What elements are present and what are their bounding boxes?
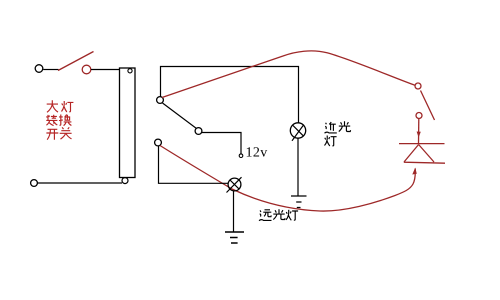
diode / headlamp symbol (red) — [399, 143, 445, 145]
char 近 — [325, 122, 337, 133]
char 关 — [60, 127, 72, 139]
arrowhead on wire — [417, 132, 421, 138]
connector bottom terminal — [122, 178, 128, 184]
bottom wire — [37, 182, 122, 184]
wire from terminal A — [43, 69, 58, 71]
right switch lower terminal (red) — [416, 113, 422, 119]
wire lamp to ground — [233, 191, 235, 232]
wire to battery terminal — [202, 133, 241, 154]
switch S1 blade (red) — [58, 52, 94, 71]
wire from S1 to connector block — [91, 69, 120, 71]
dimmer switch lower terminal — [155, 139, 162, 146]
connector top terminal — [128, 69, 132, 73]
red wire terminal to diode — [418, 119, 420, 144]
char 远 — [259, 210, 272, 221]
char 灯 — [286, 210, 298, 221]
bottom-left terminal — [31, 180, 38, 187]
char 灯 — [325, 136, 337, 147]
dimmer switch common terminal (top) — [157, 97, 164, 104]
connector block (fuse/junction) rectangle — [120, 68, 136, 178]
label 近光灯 — [325, 121, 351, 146]
ground (low-beam) — [291, 196, 307, 208]
high-beam lamp (远光灯) — [228, 178, 241, 191]
label 远光灯 — [259, 209, 298, 220]
battery terminal — [239, 154, 243, 158]
char 光 — [273, 209, 285, 219]
red wire from dimmer common to right switch — [162, 51, 416, 98]
char 灯 — [62, 101, 74, 112]
wire lamp to ground — [297, 138, 299, 195]
top supply wire to low-beam lamp — [161, 67, 299, 123]
right switch blade (red) — [421, 91, 435, 121]
svg-text:12v: 12v — [245, 146, 267, 161]
right changeover switch upper terminal (red) — [415, 83, 421, 89]
char 开 — [46, 129, 58, 139]
ground (high-beam) — [225, 232, 244, 243]
terminal A (headlight switch left terminal) — [35, 65, 43, 73]
low-beam lamp (近光灯) — [290, 123, 305, 138]
char 光 — [339, 121, 351, 131]
wire to high-beam lamp — [159, 146, 229, 184]
arrowhead on red wire — [412, 168, 417, 175]
terminal B of switch S1 (red) — [82, 65, 91, 74]
label: 大灯装换开关 (headlight changeover switch) — [46, 100, 73, 139]
char 大 — [47, 100, 58, 112]
char 换 — [59, 114, 71, 125]
dimmer switch blade — [163, 103, 197, 129]
dimmer switch moving contact — [195, 128, 202, 135]
char 装 — [46, 115, 57, 126]
red wire from lower terminal to right lamp unit — [160, 146, 415, 212]
